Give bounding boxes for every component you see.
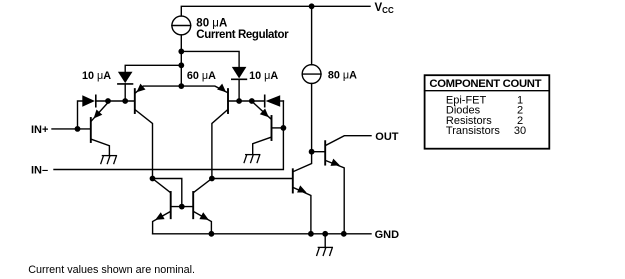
node rail Q8 emitter xyxy=(341,231,347,237)
wire D3 anode to IN+ node xyxy=(78,101,83,129)
ground G2 xyxy=(244,155,260,163)
node mirror left top xyxy=(150,176,156,182)
wire to left 10uA diode xyxy=(125,65,181,71)
svg-text:Current Regulator: Current Regulator xyxy=(196,29,289,41)
svg-text:60 μA: 60 μA xyxy=(187,70,216,82)
svg-text:OUT: OUT xyxy=(375,131,399,143)
transistor Q4 (IN- input PNP) xyxy=(252,101,284,154)
wire center distribution column xyxy=(180,35,182,86)
node right dot (Q4 emitter) xyxy=(249,98,255,104)
wire tail right to Q3 emitter xyxy=(181,86,227,93)
node center dot 1 xyxy=(178,49,184,55)
node rail Q6 emitter xyxy=(209,231,215,237)
node center dot 3 (tail) xyxy=(178,83,184,89)
component count table xyxy=(425,75,550,149)
wire to right 10uA diode xyxy=(181,51,239,67)
node Q8 base junction xyxy=(309,149,315,155)
node rail ground tap xyxy=(322,231,328,237)
svg-text:GND: GND xyxy=(375,229,400,241)
wire Vcc top rail xyxy=(181,6,370,16)
diode D1 10uA left xyxy=(118,72,133,83)
diode D4 clamp right (points left) xyxy=(266,95,281,106)
svg-text:10 μA: 10 μA xyxy=(82,70,111,82)
node Vcc rail junction xyxy=(309,3,315,9)
node IN+ junction xyxy=(75,126,81,132)
node IN- base junction xyxy=(281,125,287,131)
svg-text:10 μA: 10 μA xyxy=(249,70,278,82)
node mirror right top xyxy=(209,176,215,182)
wire tail left to Q2 emitter xyxy=(136,86,182,93)
transistor Q3 (right of input pair, PNP) xyxy=(212,84,228,179)
svg-text:30: 30 xyxy=(514,125,526,137)
transistor Q8 (output NPN) xyxy=(312,136,371,234)
transistor Q1 (IN+ input PNP) xyxy=(91,103,110,156)
wire mirror base jog xyxy=(153,179,182,207)
wire mirror bases xyxy=(171,206,194,208)
wire left node horizontal xyxy=(96,100,135,102)
wire bottom GND rail xyxy=(153,233,371,235)
svg-text:IN–: IN– xyxy=(31,164,48,176)
svg-text:Current values shown are nomin: Current values shown are nominal. xyxy=(28,264,195,276)
wire D4 anode corner xyxy=(280,100,283,102)
current regulator I1 80uA xyxy=(172,16,191,35)
wire IN- xyxy=(54,101,283,170)
diode D2 10uA right xyxy=(232,67,247,79)
node rail Q7 emitter xyxy=(308,231,314,237)
svg-text:Transistors: Transistors xyxy=(446,125,500,137)
wire mirror output to Q7 base xyxy=(212,178,293,180)
node right dot (D2 bottom) xyxy=(236,98,242,104)
wire diode D1 to left node xyxy=(124,84,126,101)
svg-text:VCC: VCC xyxy=(375,2,394,15)
node left dot (Q1 emitter) xyxy=(105,98,111,104)
wire right node horizontal xyxy=(228,100,264,102)
node left dot (D1 bottom) xyxy=(122,98,128,104)
ground G3 xyxy=(317,234,333,256)
transistor Q6 (current mirror right, NPN) xyxy=(193,179,212,234)
svg-text:COMPONENT COUNT: COMPONENT COUNT xyxy=(429,78,541,90)
svg-text:IN+: IN+ xyxy=(31,124,48,136)
current source I2 80uA right branch xyxy=(311,6,313,64)
node center dot 2 xyxy=(178,62,184,68)
node mirror base dot xyxy=(179,204,185,210)
transistor Q5 (current mirror left, NPN diode-connected) xyxy=(153,179,171,234)
svg-text:80 μA: 80 μA xyxy=(328,70,357,82)
svg-text:80 μA: 80 μA xyxy=(196,17,227,29)
ground G1 xyxy=(101,156,117,164)
wire diode D2 to right node xyxy=(238,79,240,101)
transistor Q2 (left of input pair, PNP) xyxy=(135,84,153,179)
diode D3 clamp left (points right) xyxy=(82,95,95,106)
transistor Q7 (gain stage NPN) xyxy=(293,152,312,234)
wire IN+ xyxy=(52,128,91,130)
